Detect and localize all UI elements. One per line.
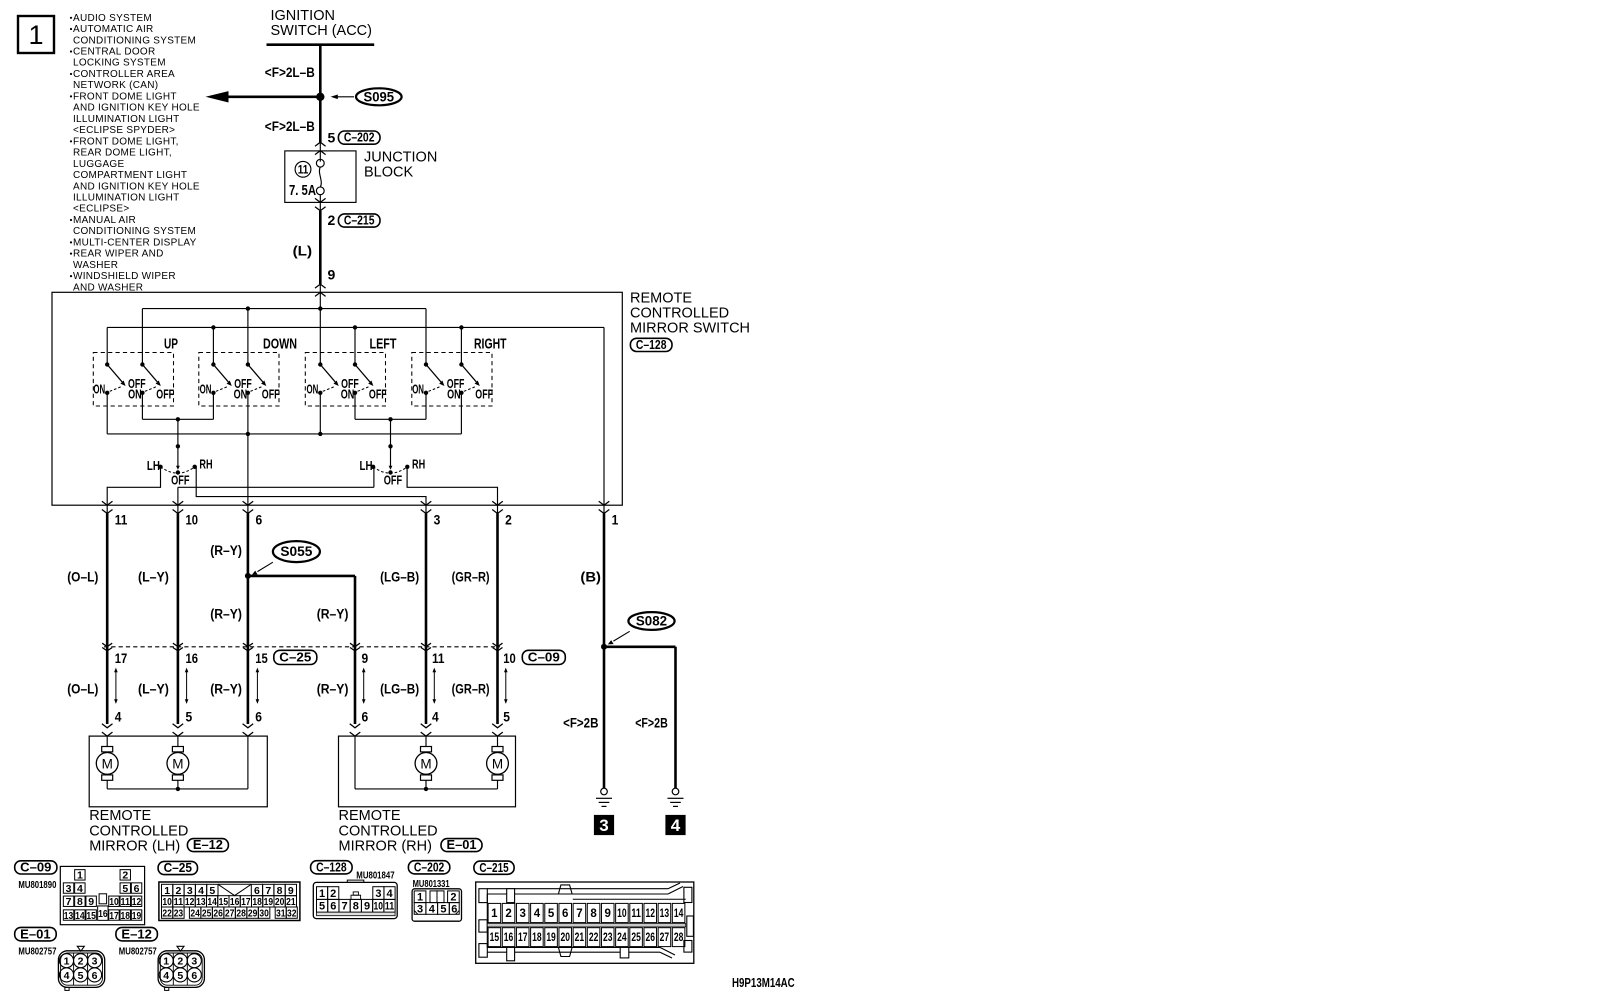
svg-text:ILLUMINATION LIGHT: ILLUMINATION LIGHT xyxy=(73,114,180,125)
svg-text:MU801890: MU801890 xyxy=(18,880,56,891)
svg-text:LEFT: LEFT xyxy=(370,335,397,352)
svg-text:3: 3 xyxy=(599,816,608,835)
svg-text:32: 32 xyxy=(287,907,297,919)
svg-text:OFF: OFF xyxy=(369,388,387,402)
svg-text:S055: S055 xyxy=(280,544,312,559)
svg-text:(R–Y): (R–Y) xyxy=(317,607,349,622)
svg-text:3: 3 xyxy=(92,956,98,968)
svg-text:MIRROR SWITCH: MIRROR SWITCH xyxy=(630,321,750,337)
svg-text:25: 25 xyxy=(202,907,212,919)
svg-text:12: 12 xyxy=(132,896,142,908)
svg-text:DOWN: DOWN xyxy=(263,335,297,352)
svg-text:(B): (B) xyxy=(580,569,601,584)
svg-text:20: 20 xyxy=(560,932,570,944)
svg-text:<ECLIPSE SPYDER>: <ECLIPSE SPYDER> xyxy=(73,125,175,136)
svg-text:16: 16 xyxy=(230,896,240,908)
svg-text:(GR–R): (GR–R) xyxy=(452,569,490,584)
svg-text:1: 1 xyxy=(612,511,619,527)
svg-text:21: 21 xyxy=(286,896,296,908)
svg-text:(O–L): (O–L) xyxy=(67,569,98,584)
svg-text:C–202: C–202 xyxy=(344,131,375,145)
svg-text:S082: S082 xyxy=(636,614,667,629)
svg-text:24: 24 xyxy=(190,907,200,919)
svg-text:CONTROLLED: CONTROLLED xyxy=(89,823,188,839)
svg-text:6: 6 xyxy=(330,901,336,913)
svg-text:REAR WIPER AND: REAR WIPER AND xyxy=(73,249,164,260)
svg-text:3: 3 xyxy=(187,885,193,897)
svg-text:RH: RH xyxy=(412,458,425,472)
svg-text:LOCKING SYSTEM: LOCKING SYSTEM xyxy=(73,58,166,69)
svg-text:ON: ON xyxy=(93,382,105,396)
svg-text:NETWORK (CAN): NETWORK (CAN) xyxy=(73,80,158,91)
svg-text:5: 5 xyxy=(186,708,193,724)
svg-text:E–12: E–12 xyxy=(193,838,223,852)
svg-text:19: 19 xyxy=(546,932,556,944)
svg-text:CONTROLLED: CONTROLLED xyxy=(630,306,729,322)
svg-text:AND WASHER: AND WASHER xyxy=(73,282,143,293)
svg-text:C–128: C–128 xyxy=(636,338,667,352)
svg-text:10: 10 xyxy=(186,511,199,527)
svg-text:19: 19 xyxy=(132,910,142,922)
svg-text:12: 12 xyxy=(646,908,656,920)
svg-text:4: 4 xyxy=(115,708,122,724)
svg-text:ON: ON xyxy=(234,388,248,402)
svg-text:28: 28 xyxy=(236,907,246,919)
svg-text:6: 6 xyxy=(362,708,369,724)
svg-text:26: 26 xyxy=(213,907,223,919)
svg-text:ON: ON xyxy=(412,382,424,396)
svg-text:(R–Y): (R–Y) xyxy=(210,543,242,558)
svg-text:2: 2 xyxy=(330,888,336,900)
svg-text:REMOTE: REMOTE xyxy=(339,808,401,824)
svg-text:MIRROR (LH): MIRROR (LH) xyxy=(89,839,180,855)
svg-text:AND IGNITION KEY HOLE: AND IGNITION KEY HOLE xyxy=(73,181,200,192)
svg-text:C–25: C–25 xyxy=(164,861,192,875)
svg-text:<F>2B: <F>2B xyxy=(635,715,668,730)
svg-text:16: 16 xyxy=(186,650,199,666)
svg-text:14: 14 xyxy=(207,896,217,908)
svg-text:24: 24 xyxy=(617,932,627,944)
svg-text:22: 22 xyxy=(589,932,599,944)
svg-text:10: 10 xyxy=(617,908,627,920)
svg-text:9: 9 xyxy=(328,266,336,282)
svg-text:27: 27 xyxy=(225,907,235,919)
svg-text:8: 8 xyxy=(277,885,283,897)
svg-text:11: 11 xyxy=(298,164,309,176)
svg-text:MULTI-CENTER DISPLAY: MULTI-CENTER DISPLAY xyxy=(73,237,197,248)
svg-text:5: 5 xyxy=(319,901,325,913)
svg-text:2: 2 xyxy=(176,885,182,897)
svg-text:7: 7 xyxy=(66,896,72,908)
svg-text:7. 5A: 7. 5A xyxy=(289,183,316,199)
svg-text:1: 1 xyxy=(164,885,170,897)
svg-text:<ECLIPSE>: <ECLIPSE> xyxy=(73,204,129,215)
svg-text:C–09: C–09 xyxy=(20,861,51,875)
svg-text:11: 11 xyxy=(631,908,641,920)
svg-text:17: 17 xyxy=(115,650,128,666)
svg-text:CENTRAL DOOR: CENTRAL DOOR xyxy=(73,46,155,57)
svg-text:21: 21 xyxy=(575,932,585,944)
svg-text:6: 6 xyxy=(256,511,263,527)
svg-text:4: 4 xyxy=(429,903,436,915)
svg-text:<F>2B: <F>2B xyxy=(563,715,599,730)
svg-text:H9P13M14AC: H9P13M14AC xyxy=(732,976,795,990)
svg-text:13: 13 xyxy=(196,896,206,908)
svg-text:15: 15 xyxy=(255,650,268,666)
svg-text:M: M xyxy=(420,756,431,771)
svg-text:5: 5 xyxy=(209,885,215,897)
svg-text:(R–Y): (R–Y) xyxy=(210,681,242,696)
svg-text:FRONT DOME LIGHT: FRONT DOME LIGHT xyxy=(73,91,177,102)
svg-text:6: 6 xyxy=(191,970,197,982)
svg-text:OFF: OFF xyxy=(156,388,174,402)
svg-text:7: 7 xyxy=(576,908,582,920)
svg-text:C–215: C–215 xyxy=(479,861,508,875)
svg-text:2: 2 xyxy=(177,956,183,968)
svg-text:15: 15 xyxy=(490,932,500,944)
svg-text:CONTROLLER AREA: CONTROLLER AREA xyxy=(73,69,175,80)
svg-text:ON: ON xyxy=(200,382,212,396)
svg-text:S095: S095 xyxy=(364,89,395,104)
svg-text:1: 1 xyxy=(77,870,83,882)
svg-text:COMPARTMENT LIGHT: COMPARTMENT LIGHT xyxy=(73,170,187,181)
svg-text:7: 7 xyxy=(265,885,271,897)
svg-text:WINDSHIELD WIPER: WINDSHIELD WIPER xyxy=(73,271,176,282)
svg-text:30: 30 xyxy=(259,907,269,919)
svg-text:RIGHT: RIGHT xyxy=(474,335,507,352)
svg-text:2: 2 xyxy=(328,212,336,228)
svg-text:LH: LH xyxy=(147,459,160,473)
svg-text:13: 13 xyxy=(660,908,670,920)
svg-text:7: 7 xyxy=(342,901,348,913)
svg-text:8: 8 xyxy=(590,908,597,920)
svg-text:14: 14 xyxy=(674,908,684,920)
svg-text:<F>2L–B: <F>2L–B xyxy=(265,119,315,134)
svg-text:6: 6 xyxy=(255,708,262,724)
svg-text:17: 17 xyxy=(518,932,528,944)
svg-text:ON: ON xyxy=(447,388,461,402)
svg-text:MIRROR (RH): MIRROR (RH) xyxy=(339,839,432,855)
svg-text:18: 18 xyxy=(121,910,131,922)
svg-text:IGNITION: IGNITION xyxy=(271,8,335,24)
svg-text:5: 5 xyxy=(503,708,510,724)
svg-text:(O–L): (O–L) xyxy=(67,681,98,696)
svg-text:3: 3 xyxy=(66,883,72,895)
svg-text:4: 4 xyxy=(163,970,169,982)
svg-text:18: 18 xyxy=(252,896,262,908)
svg-text:1: 1 xyxy=(319,888,325,900)
svg-text:(LG–B): (LG–B) xyxy=(380,681,419,696)
svg-text:(LG–B): (LG–B) xyxy=(380,569,419,584)
svg-text:CONDITIONING SYSTEM: CONDITIONING SYSTEM xyxy=(73,226,196,237)
svg-text:9: 9 xyxy=(288,885,294,897)
svg-text:9: 9 xyxy=(362,650,369,666)
svg-text:LUGGAGE: LUGGAGE xyxy=(73,159,124,170)
svg-text:C–09: C–09 xyxy=(528,651,560,665)
svg-text:OFF: OFF xyxy=(384,473,403,487)
svg-text:10: 10 xyxy=(109,896,119,908)
svg-text:26: 26 xyxy=(646,932,656,944)
svg-text:11: 11 xyxy=(115,511,128,527)
svg-text:20: 20 xyxy=(275,896,285,908)
svg-text:E–01: E–01 xyxy=(447,838,477,852)
svg-text:27: 27 xyxy=(660,932,670,944)
svg-text:(L–Y): (L–Y) xyxy=(138,681,169,696)
svg-text:4: 4 xyxy=(386,888,393,900)
svg-text:RH: RH xyxy=(199,458,212,472)
svg-text:SWITCH (ACC): SWITCH (ACC) xyxy=(271,23,373,39)
svg-text:6: 6 xyxy=(134,883,140,895)
svg-text:11: 11 xyxy=(121,896,131,908)
svg-text:ON: ON xyxy=(341,388,355,402)
svg-text:14: 14 xyxy=(75,910,85,922)
svg-text:10: 10 xyxy=(162,896,172,908)
svg-text:25: 25 xyxy=(631,932,641,944)
svg-text:ON: ON xyxy=(307,382,319,396)
svg-text:12: 12 xyxy=(185,896,195,908)
svg-text:MU802757: MU802757 xyxy=(18,946,56,957)
svg-text:C–128: C–128 xyxy=(316,860,347,874)
svg-text:2: 2 xyxy=(505,908,511,920)
svg-text:9: 9 xyxy=(88,896,94,908)
svg-text:1: 1 xyxy=(491,908,498,920)
svg-text:4: 4 xyxy=(198,885,204,897)
svg-text:1: 1 xyxy=(163,956,169,968)
svg-text:REAR DOME LIGHT,: REAR DOME LIGHT, xyxy=(73,148,172,159)
svg-text:ILLUMINATION LIGHT: ILLUMINATION LIGHT xyxy=(73,192,180,203)
svg-text:4: 4 xyxy=(77,883,83,895)
svg-text:CONTROLLED: CONTROLLED xyxy=(339,823,438,839)
svg-text:ON: ON xyxy=(128,388,142,402)
svg-text:UP: UP xyxy=(164,335,178,352)
svg-text:17: 17 xyxy=(241,896,251,908)
svg-text:JUNCTION: JUNCTION xyxy=(364,149,437,165)
svg-text:MU802757: MU802757 xyxy=(119,946,157,957)
svg-text:4: 4 xyxy=(64,970,70,982)
svg-text:1: 1 xyxy=(417,892,423,904)
svg-text:M: M xyxy=(172,756,183,771)
svg-text:5: 5 xyxy=(328,129,336,145)
svg-text:M: M xyxy=(102,756,113,771)
svg-text:BLOCK: BLOCK xyxy=(364,164,413,180)
svg-text:5: 5 xyxy=(78,970,84,982)
svg-text:OFF: OFF xyxy=(262,388,280,402)
svg-text:AUDIO SYSTEM: AUDIO SYSTEM xyxy=(73,13,152,24)
svg-text:15: 15 xyxy=(86,910,96,922)
svg-text:(L): (L) xyxy=(293,243,313,258)
svg-text:8: 8 xyxy=(77,896,83,908)
svg-text:AUTOMATIC AIR: AUTOMATIC AIR xyxy=(73,24,154,35)
svg-text:3: 3 xyxy=(417,903,423,915)
svg-text:3: 3 xyxy=(191,956,197,968)
svg-text:(GR–R): (GR–R) xyxy=(452,681,490,696)
svg-text:2: 2 xyxy=(450,892,456,904)
svg-text:OFF: OFF xyxy=(171,473,190,487)
svg-text:2: 2 xyxy=(505,511,512,527)
svg-text:E–01: E–01 xyxy=(20,927,51,941)
svg-text:11: 11 xyxy=(432,650,445,666)
svg-text:5: 5 xyxy=(440,903,446,915)
svg-text:M: M xyxy=(492,756,503,771)
svg-text:10: 10 xyxy=(374,901,384,913)
svg-text:28: 28 xyxy=(674,932,684,944)
svg-text:WASHER: WASHER xyxy=(73,260,118,271)
svg-text:13: 13 xyxy=(64,910,74,922)
svg-text:9: 9 xyxy=(605,908,611,920)
svg-text:2: 2 xyxy=(78,956,84,968)
svg-text:4: 4 xyxy=(534,908,541,920)
svg-text:9: 9 xyxy=(364,901,370,913)
svg-text:5: 5 xyxy=(177,970,183,982)
svg-text:11: 11 xyxy=(385,901,395,913)
svg-text:31: 31 xyxy=(276,907,286,919)
svg-text:8: 8 xyxy=(353,901,359,913)
svg-text:<F>2L–B: <F>2L–B xyxy=(265,65,315,80)
svg-text:(R–Y): (R–Y) xyxy=(317,681,349,696)
svg-text:5: 5 xyxy=(548,908,555,920)
svg-text:15: 15 xyxy=(219,896,229,908)
svg-text:3: 3 xyxy=(434,511,441,527)
svg-text:6: 6 xyxy=(562,908,568,920)
svg-text:REMOTE: REMOTE xyxy=(630,291,692,307)
svg-text:REMOTE: REMOTE xyxy=(89,808,151,824)
svg-text:3: 3 xyxy=(375,888,381,900)
svg-text:3: 3 xyxy=(520,908,526,920)
svg-text:29: 29 xyxy=(248,907,258,919)
svg-text:FRONT DOME LIGHT,: FRONT DOME LIGHT, xyxy=(73,136,179,147)
svg-text:4: 4 xyxy=(432,708,439,724)
svg-text:1: 1 xyxy=(29,20,44,50)
svg-text:C–25: C–25 xyxy=(279,651,311,665)
svg-text:CONDITIONING SYSTEM: CONDITIONING SYSTEM xyxy=(73,35,196,46)
svg-text:LH: LH xyxy=(360,459,373,473)
svg-text:AND IGNITION KEY HOLE: AND IGNITION KEY HOLE xyxy=(73,103,200,114)
svg-text:11: 11 xyxy=(174,896,184,908)
svg-text:1: 1 xyxy=(64,956,70,968)
svg-text:10: 10 xyxy=(503,650,516,666)
svg-text:22: 22 xyxy=(162,907,172,919)
svg-text:C–202: C–202 xyxy=(414,860,444,874)
svg-text:16: 16 xyxy=(98,908,108,920)
svg-text:19: 19 xyxy=(264,896,274,908)
svg-text:17: 17 xyxy=(109,910,119,922)
svg-text:E–12: E–12 xyxy=(121,927,152,941)
svg-text:4: 4 xyxy=(671,816,681,835)
svg-text:23: 23 xyxy=(603,932,613,944)
svg-text:OFF: OFF xyxy=(475,388,493,402)
svg-text:C–215: C–215 xyxy=(344,214,375,228)
svg-text:6: 6 xyxy=(92,970,98,982)
svg-text:(R–Y): (R–Y) xyxy=(210,607,242,622)
svg-text:16: 16 xyxy=(504,932,514,944)
svg-text:(L–Y): (L–Y) xyxy=(138,569,169,584)
svg-text:23: 23 xyxy=(174,907,184,919)
svg-text:18: 18 xyxy=(532,932,542,944)
svg-text:6: 6 xyxy=(254,885,260,897)
svg-text:MANUAL AIR: MANUAL AIR xyxy=(73,215,136,226)
svg-text:5: 5 xyxy=(122,883,128,895)
svg-text:2: 2 xyxy=(122,870,128,882)
